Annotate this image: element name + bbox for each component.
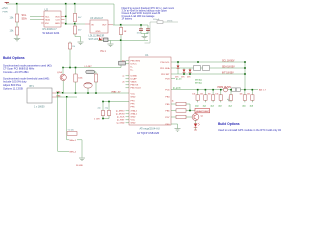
svg-text:3V3 bus: 3V3 bus	[195, 83, 202, 85]
svg-text:UCAP: UCAP	[131, 78, 138, 81]
svg-text:U1: U1	[145, 53, 149, 57]
note 5V tolerant	[195, 80, 202, 85]
junction x70 rail	[69, 67, 71, 69]
svg-text:10k: 10k	[240, 94, 243, 96]
ground xtal	[79, 158, 85, 161]
svg-text:CLK: CLK	[56, 19, 61, 21]
svg-text:1F battery: 1F battery	[122, 17, 133, 20]
capacitor C4	[107, 102, 110, 119]
svg-text:GND: GND	[96, 31, 101, 33]
wire INT bus	[171, 73, 245, 75]
svg-text:Used to uninstall GPS module i: Used to uninstall GPS module in the RTC …	[218, 128, 282, 132]
resistor R13	[211, 90, 214, 103]
U1 pin names left B	[131, 76, 142, 90]
U1 left stubs upper	[126, 61, 130, 88]
resistor R16	[243, 90, 246, 103]
resistor R1	[15, 14, 18, 22]
svg-text:SDA: SDA	[45, 18, 50, 21]
global label HEARTBEAT	[195, 108, 210, 113]
svg-text:Fitted # to support (backup) R: Fitted # to support (backup) RTC #2 t.c.…	[122, 7, 175, 10]
capacitor C2	[146, 25, 150, 34]
wire battery rail	[56, 92, 129, 94]
wire row 104	[171, 103, 176, 105]
wire 3V3 out rail	[113, 24, 148, 26]
fuse F1	[157, 21, 163, 24]
svg-text:44 TQFP USB AVR: 44 TQFP USB AVR	[137, 131, 159, 135]
wire R6 corner	[186, 104, 190, 111]
junction node x66	[65, 3, 67, 5]
svg-text:VCC: VCC	[131, 94, 136, 96]
wire right rail x245	[244, 62, 246, 90]
svg-text:VBUS: VBUS	[131, 82, 137, 84]
svg-text:MHz-2: MHz-2	[70, 151, 77, 153]
power +3V3 flag	[5, 3, 9, 5]
transistor Q2	[60, 68, 66, 94]
U1 right stub row 78.5	[171, 78, 175, 80]
junction Rnet3	[220, 89, 222, 91]
svg-text:HEARTBEAT: HEARTBEAT	[196, 110, 210, 113]
svg-text:OUT: OUT	[102, 25, 107, 27]
junction Rnet2	[212, 89, 214, 91]
svg-text:100n: 100n	[137, 32, 141, 34]
wire caps join	[103, 118, 109, 120]
svg-text:10k: 10k	[247, 94, 250, 96]
svg-text:EVI: EVI	[45, 23, 49, 25]
junction Rnet1	[205, 89, 207, 91]
wire I2C to regulator	[66, 23, 85, 25]
resistor R4 pullup	[73, 26, 76, 34]
ground divider	[14, 38, 20, 41]
wire LED tail	[195, 128, 197, 131]
jumper JP4	[236, 88, 240, 91]
ground pullup	[78, 42, 84, 45]
LED net mark	[194, 129, 197, 131]
junction x141	[140, 24, 142, 26]
svg-text:AN 1-7: AN 1-7	[259, 89, 267, 92]
svg-text:U2: U2	[45, 7, 49, 11]
svg-text:tp_MOSI: tp_MOSI	[116, 113, 125, 116]
junction Rnet5	[244, 89, 246, 91]
gnd stub regulator	[110, 41, 112, 44]
wire row 124	[171, 124, 178, 128]
TVS diode D3	[183, 68, 186, 74]
wire R4 to gnd	[75, 34, 81, 42]
svg-text:100k: 100k	[78, 78, 82, 80]
svg-text:GND: GND	[131, 117, 136, 119]
wire R1-R2	[16, 22, 18, 27]
capacitor C1	[139, 25, 143, 34]
junction bus x121	[120, 39, 122, 41]
svg-text:1k: 1k	[172, 101, 174, 103]
net labels MISO MOSI	[116, 110, 125, 125]
junction Q2 rail	[62, 67, 64, 69]
note sync threshold	[3, 76, 50, 90]
wire R7 to label	[186, 110, 195, 112]
wire to U2 pin1	[30, 16, 41, 18]
resistor R12	[204, 90, 207, 103]
net labels upper left	[122, 61, 125, 84]
wire xtal left drop	[58, 93, 69, 151]
svg-text:Y1 32k: Y1 32k	[68, 130, 74, 132]
junction row110.5	[189, 110, 191, 112]
junction x245 scl	[244, 61, 246, 63]
svg-text:Q2 A: Q2 A	[57, 71, 62, 74]
jumper JP1	[194, 66, 201, 71]
U2 pin stubs right	[61, 17, 65, 24]
svg-text:22p: 22p	[98, 108, 101, 110]
svg-text:BT1: BT1	[30, 85, 35, 88]
U1 pin names right	[160, 62, 170, 126]
svg-text:10k: 10k	[192, 94, 195, 96]
junction x245 int	[244, 73, 246, 75]
svg-text:Options 11.13GB: Options 11.13GB	[3, 86, 23, 90]
wire top 3V3 rail	[7, 3, 114, 5]
svg-text:PD2 INT: PD2 INT	[161, 74, 170, 76]
crystal Y1	[67, 132, 77, 136]
resistor R10	[94, 72, 97, 93]
svg-text:PD1 SDA: PD1 SDA	[160, 67, 170, 70]
U3 pin stub in	[85, 23, 90, 25]
svg-text:10k: 10k	[208, 94, 211, 96]
resistor R7	[176, 109, 186, 112]
svg-text:W GND: W GND	[76, 165, 83, 167]
op IC U2 RTC body	[44, 11, 61, 27]
junction x96	[95, 92, 97, 94]
junction osc b	[108, 101, 110, 103]
svg-text:Build Options: Build Options	[3, 56, 25, 60]
resistor R18	[68, 42, 71, 68]
resistor R15	[229, 90, 232, 103]
junction x66/y24	[65, 23, 67, 25]
junction D3 D4 row74	[183, 73, 191, 75]
svg-text:VDD: VDD	[55, 16, 60, 18]
wire gnd bus regulator	[98, 40, 148, 42]
wire to U2 pin2	[30, 19, 41, 21]
wire battery neg	[56, 96, 77, 98]
svg-text:+3V3: +3V3	[2, 6, 9, 10]
svg-text:5V0 bus: 5V0 bus	[195, 80, 202, 82]
wire divider drop	[16, 4, 18, 14]
svg-text:PB0 SS: PB0 SS	[131, 85, 139, 87]
svg-text:tp_int: tp_int	[176, 77, 182, 80]
ground pwm mid	[227, 97, 231, 102]
svg-text:tp_SCK: tp_SCK	[117, 116, 125, 119]
junction x75.5	[75, 92, 77, 94]
svg-text:PB1 SCLK: PB1 SCLK	[131, 88, 142, 90]
svg-text:PWR: PWR	[3, 12, 9, 14]
U2 pin stubs left	[41, 17, 44, 24]
svg-text:tp_RST: tp_RST	[117, 119, 125, 122]
svg-text:GND: GND	[55, 23, 60, 25]
svg-text:SDA: SDA	[22, 17, 27, 20]
svg-text:tp_MISO: tp_MISO	[116, 110, 125, 113]
svg-text:ATmega32U4-AU: ATmega32U4-AU	[140, 126, 160, 130]
svg-text:W 32kHz 0x64: W 32kHz 0x64	[43, 31, 60, 35]
U3 pin stub out	[108, 24, 113, 26]
capacitor C3	[101, 102, 104, 119]
transistor Q1	[192, 114, 199, 121]
wire R2-gnd	[16, 35, 18, 38]
junction x63	[62, 92, 64, 94]
wire pullup drop x75	[74, 4, 76, 14]
resistor R2	[15, 27, 18, 35]
capacitor C5 polarized	[84, 83, 92, 94]
svg-text:L2 4R7: L2 4R7	[85, 66, 93, 68]
wire osc row	[103, 101, 129, 103]
resistor R5	[119, 28, 122, 35]
jumper JP3	[232, 88, 236, 91]
ground caps	[142, 36, 148, 39]
svg-text:D-: D-	[131, 67, 134, 69]
BT1 pin stubs	[52, 93, 56, 97]
svg-text:Console +19.375 dBm: Console +19.375 dBm	[3, 70, 29, 74]
U1 pin names left D	[131, 110, 138, 125]
junction x75.5 rail	[75, 67, 77, 69]
svg-text:VBAT_3V: VBAT_3V	[111, 90, 121, 93]
inductor L1	[104, 38, 109, 42]
D2 D3 D4 values	[175, 77, 190, 79]
resistor R11	[196, 90, 199, 103]
wire R8 to Q1	[186, 116, 192, 118]
svg-text:1R: 1R	[124, 31, 127, 33]
wire SCL bus	[171, 61, 245, 63]
wire test tap	[150, 21, 178, 23]
junction x245 sda	[244, 67, 246, 69]
resistor R6	[176, 102, 186, 105]
U2 pin names right	[55, 16, 60, 25]
svg-text:SDA 18-50V: SDA 18-50V	[222, 65, 235, 68]
svg-text:VSYS: VSYS	[167, 20, 173, 22]
svg-text:MHz-1: MHz-1	[70, 140, 77, 142]
MCU U1 body	[129, 57, 171, 125]
svg-text:10k: 10k	[215, 94, 218, 96]
svg-text:UGND: UGND	[131, 76, 138, 78]
resistor R3 pullup	[73, 14, 76, 22]
TVS diode D2	[177, 62, 180, 74]
junction Rnet0	[197, 89, 199, 91]
wire tap drop	[145, 22, 151, 43]
junction at R1 top	[16, 3, 18, 5]
svg-text:UVCC: UVCC	[131, 64, 138, 66]
wire SDA bus	[171, 67, 245, 69]
inductor L2	[86, 70, 95, 74]
wire VCC rail down	[63, 41, 121, 68]
junction osc a	[102, 101, 104, 103]
ground regulator	[108, 44, 114, 47]
svg-text:RV-3028-C7: RV-3028-C7	[43, 27, 58, 31]
svg-text:VCC: VCC	[131, 120, 136, 122]
note RTC options	[122, 7, 175, 20]
svg-text:1M: 1M	[72, 46, 75, 48]
U2 pin names left	[45, 16, 50, 25]
svg-text:3.3V at 45nA on battery backup: 3.3V at 45nA on battery backup mode 5ppm	[122, 10, 167, 13]
wire R5 to bus	[120, 35, 122, 41]
junction node x75	[74, 3, 76, 5]
svg-text:10k: 10k	[200, 94, 203, 96]
TVS diode D4	[189, 68, 192, 74]
svg-text:uc: uc	[122, 76, 124, 78]
U1 pin names left A	[131, 61, 141, 72]
junction x88	[87, 92, 89, 94]
svg-text:GND: GND	[131, 123, 136, 125]
LED D5	[194, 123, 200, 127]
wire R3 bottom	[74, 22, 76, 27]
junction x67	[66, 96, 68, 98]
wire Q1 emitter	[195, 120, 197, 123]
svg-text:XTAL1: XTAL1	[131, 113, 138, 116]
U1 left stubs D	[126, 111, 130, 123]
svg-text:tp_GND: tp_GND	[117, 122, 125, 125]
junction U2 vdd	[65, 16, 67, 18]
wire rail corner from top	[113, 4, 115, 25]
wire row 117	[171, 116, 176, 118]
junction Rnet4	[230, 89, 232, 91]
wire x121 drop	[120, 25, 122, 28]
svg-text:Closest 8-pad SOIC footprint u: Closest 8-pad SOIC footprint used #3	[122, 12, 161, 15]
svg-text:1 CHI: 1 CHI	[94, 118, 100, 120]
svg-text:INT 18-50V: INT 18-50V	[222, 72, 234, 74]
svg-text:XTAL2: XTAL2	[131, 110, 138, 113]
junction SCL x198	[197, 61, 199, 63]
resistor R9	[74, 68, 77, 94]
ferrite FB1	[119, 61, 126, 65]
wire caps join	[141, 34, 148, 37]
svg-text:PG 1: PG 1	[101, 51, 107, 53]
resistor R14	[219, 90, 222, 103]
svg-text:PD0 SCL: PD0 SCL	[160, 62, 170, 64]
wire VDD rail x66	[65, 4, 67, 24]
svg-text:5V6: 5V6	[187, 77, 190, 79]
junction Rnet6	[252, 89, 254, 91]
svg-text:Build Options: Build Options	[218, 122, 240, 126]
jumper JP2	[203, 66, 210, 71]
svg-text:GND: GND	[131, 97, 136, 99]
battery BT1 body	[27, 88, 52, 103]
svg-text:5V6: 5V6	[181, 77, 184, 79]
svg-text:1 x 18650: 1 x 18650	[34, 105, 45, 108]
junction x58	[57, 92, 59, 94]
junction x121	[120, 24, 122, 26]
junction I2C node	[74, 23, 76, 25]
ground row 124	[175, 129, 181, 132]
wire row 110.5	[171, 110, 176, 112]
svg-text:U3 LDL1117: U3 LDL1117	[90, 17, 104, 20]
svg-text:SCL 18-50V: SCL 18-50V	[222, 60, 235, 62]
resistor R8	[176, 115, 186, 118]
diode D1	[99, 37, 102, 40]
wire xtal out	[77, 140, 82, 158]
svg-text:22p: 22p	[105, 108, 108, 110]
svg-text:500mA: 500mA	[153, 18, 160, 21]
U3 pin names	[91, 25, 107, 33]
junction caps	[102, 118, 104, 120]
resistor R17	[251, 90, 254, 103]
regulator U3 body	[90, 20, 108, 33]
polarized cap C6	[223, 88, 227, 92]
svg-text:Crossed A-rail 1MF low leakage: Crossed A-rail 1MF low leakage	[122, 15, 156, 18]
wire PWM bus	[171, 89, 258, 91]
note sync parameters	[3, 63, 52, 74]
svg-text:PE6 INT6: PE6 INT6	[131, 61, 141, 63]
U1 pin names left C	[131, 94, 136, 109]
wire xtal right drop	[67, 97, 69, 140]
junction D2 top	[177, 61, 179, 63]
svg-text:tp_pwm: tp_pwm	[173, 86, 181, 89]
